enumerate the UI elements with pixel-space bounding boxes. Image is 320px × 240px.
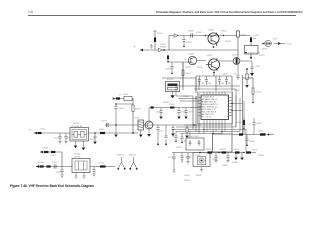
node junction after FL5551 (94, 132, 96, 134)
node bias dot (245, 52, 247, 54)
node IF2 arrow (36, 165, 39, 168)
wire bus corner upper (162, 77, 196, 79)
wire routing pocket (173, 130, 196, 142)
node dot (218, 152, 220, 154)
svg-text:C78: C78 (159, 131, 162, 133)
svg-text:R5564: R5564 (163, 102, 169, 104)
node dot (243, 152, 245, 154)
svg-text:R5586: R5586 (232, 162, 238, 164)
svg-text:C5604: C5604 (258, 155, 264, 157)
svg-text:R5582: R5582 (206, 149, 212, 151)
svg-text:R5571: R5571 (259, 55, 265, 57)
transistor Q5554 (233, 58, 240, 65)
inductor L5556 (100, 132, 105, 134)
header rule (28, 14, 296, 16)
svg-text:1 2 3 4 5 6: 1 2 3 4 5 6 (202, 116, 212, 118)
svg-text:D5551: D5551 (262, 49, 268, 51)
svg-text:C5553: C5553 (90, 139, 96, 141)
resistor R5557 vertical right (237, 30, 239, 62)
svg-text:SH5552: SH5552 (129, 155, 136, 157)
capacitor C5577 (184, 108, 187, 117)
wire outer routing ring (194, 89, 236, 127)
pin stubs U5551 top (204, 92, 225, 95)
svg-text:Schematic Diagrams, Overlays,: Schematic Diagrams, Overlays, and Parts … (156, 10, 303, 14)
svg-text:R5556: R5556 (38, 162, 44, 164)
resistor R5562 on rail (170, 107, 174, 109)
ceramic filter FL5552 (72, 159, 90, 173)
svg-text:C5551: C5551 (54, 138, 60, 140)
capacitor C5552 stub (64, 133, 67, 142)
mixer block U5552 (245, 46, 259, 55)
wire loop top (116, 103, 133, 105)
wire second stage line (178, 35, 250, 37)
wire second row (168, 61, 192, 63)
resistor R5551 vertical (154, 31, 156, 50)
ground FL5551 pin 3 (83, 141, 85, 147)
svg-text:Q5554: Q5554 (232, 55, 238, 57)
wire feeds from top cluster into bus (196, 78, 199, 93)
svg-text:C5554: C5554 (50, 155, 56, 157)
capacitor C5557 stub (92, 167, 95, 175)
ferrite E5554 (246, 151, 251, 153)
resistor R5574 (252, 88, 254, 94)
capacitor C5555 on line (54, 164, 56, 168)
svg-text:R5552: R5552 (221, 31, 227, 33)
svg-text:C5573: C5573 (101, 121, 107, 123)
IC U5551 internal text (202, 96, 218, 118)
capacitor C5581 (198, 76, 201, 85)
wire RX IF out line (232, 132, 274, 135)
svg-text:L5551: L5551 (40, 129, 45, 131)
resistor R5583 on line (222, 151, 227, 153)
svg-text:C5556: C5556 (56, 172, 62, 174)
pin stubs U5551 bottom (204, 120, 225, 134)
svg-text:R5572 C5571: R5572 C5571 (249, 53, 261, 55)
wire IF output line (186, 152, 244, 154)
svg-text:C5569: C5569 (222, 74, 228, 76)
svg-text:R5551: R5551 (157, 33, 163, 35)
node arrow out (274, 43, 278, 45)
svg-text:.01: .01 (184, 59, 187, 61)
capacitor C5582 (205, 76, 208, 85)
pin stubs U5551 right (229, 98, 233, 116)
capacitor C5597 stub (226, 153, 229, 161)
svg-text:CRYSTAL FIL: CRYSTAL FIL (71, 125, 83, 128)
wire IF input net to buffer (140, 49, 238, 51)
capacitor C5556 stub (60, 167, 63, 176)
svg-text:L5562: L5562 (258, 131, 263, 133)
svg-text:IF: IF (134, 47, 137, 49)
wire lower matching rail (105, 124, 201, 126)
svg-text:C5577: C5577 (188, 112, 194, 114)
svg-text:C84: C84 (228, 83, 231, 85)
svg-text:Y5551: Y5551 (286, 44, 291, 46)
wire upper IF rail (149, 107, 201, 109)
svg-text:Y5551: Y5551 (195, 155, 200, 157)
svg-text:RX IF: RX IF (253, 150, 259, 152)
varactor D5551 (265, 40, 271, 46)
buffer arrow A2 (174, 34, 178, 37)
inductor L5563 on line (235, 151, 240, 153)
svg-text:C5560: C5560 (196, 32, 202, 34)
svg-text:C5599: C5599 (168, 157, 174, 159)
inductor L5554 (124, 96, 132, 100)
inductor L5562 (260, 133, 266, 135)
ground stub below module x236 (235, 153, 237, 158)
wire 2nd LO line (40, 152, 62, 167)
svg-text:C81: C81 (201, 83, 204, 85)
svg-text:9.6V: 9.6V (273, 39, 278, 41)
svg-text:C5555: C5555 (52, 162, 58, 164)
capacitor C5564 below (182, 36, 185, 47)
capacitor C5599 tall stub (172, 153, 175, 171)
node IF_IN terminal arrow (140, 49, 143, 52)
svg-text:L5556: L5556 (99, 129, 104, 131)
svg-text:RX: RX (29, 130, 32, 132)
svg-text:C5587: C5587 (256, 123, 262, 125)
capacitor C5553 stub (93, 133, 96, 141)
transistor Q5551 (208, 33, 219, 44)
ground Y5551 (200, 167, 203, 173)
svg-text:C5593: C5593 (176, 147, 182, 149)
svg-text:Figure 7-46. VHF Receiver Back: Figure 7-46. VHF Receiver Back End Schem… (10, 184, 94, 188)
svg-text:L5560: L5560 (254, 35, 259, 37)
svg-text:R5574: R5574 (256, 92, 262, 94)
resistor R5561 vertical (132, 99, 134, 134)
ground stub x116 (115, 125, 117, 134)
capacitor C5592 (180, 134, 183, 143)
blank module box (213, 134, 233, 152)
capacitor C5573 series (106, 123, 108, 127)
ferrite E5551 (239, 133, 243, 135)
buffer arrow A1 (159, 48, 163, 52)
svg-text:C5561: C5561 (186, 42, 192, 44)
crystal filter FL5551 (70, 128, 89, 142)
svg-text:5V: 5V (119, 95, 122, 97)
inductor L5561 stub (243, 118, 245, 135)
capacitor C5563 on line (191, 33, 193, 37)
capacitor C5576 (177, 108, 180, 117)
svg-text:C5570: C5570 (255, 66, 261, 68)
wire left feed of IF line (172, 152, 186, 154)
svg-text:Q5552: Q5552 (207, 55, 213, 57)
wire bus verticals right of U5551 (232, 92, 244, 132)
ground stub below module x242 (241, 153, 243, 158)
capacitor C5588 stub (245, 135, 248, 146)
svg-text:FL5552: FL5552 (74, 154, 80, 156)
capacitor C5579 stub (165, 125, 167, 144)
inductor L5557 (51, 151, 55, 153)
svg-text:IF AMP: IF AMP (160, 46, 167, 49)
inductor L5559 (100, 165, 106, 167)
svg-text:R5557: R5557 (241, 35, 247, 37)
capacitor C5570 (250, 67, 253, 73)
capacitor C5565 (170, 62, 173, 73)
node dot rail (193, 124, 195, 126)
svg-text:L5563: L5563 (234, 149, 239, 151)
svg-text:Q5553: Q5553 (189, 54, 195, 56)
svg-text:C5567: C5567 (185, 73, 191, 75)
transistor Q5555 (145, 121, 153, 129)
capacitor C5580 stub (171, 125, 174, 133)
capacitor C5585 stub right (236, 62, 239, 80)
svg-text:C5563: C5563 (188, 31, 194, 33)
crystal X5551 (138, 120, 144, 130)
svg-text:R5558: R5558 (197, 67, 203, 69)
svg-text:R5555: R5555 (43, 148, 49, 150)
svg-text:R5584: R5584 (184, 180, 190, 182)
wire interstage riser (169, 36, 174, 51)
wire bus horizontals below IC (172, 125, 246, 134)
svg-text:C5601: C5601 (184, 175, 190, 177)
svg-text:R5585: R5585 (196, 175, 202, 177)
svg-text:C5588: C5588 (249, 141, 255, 143)
ground FL5552 pin A (74, 173, 77, 179)
inductor L5553 (116, 97, 120, 99)
pin stubs U5551 left (198, 98, 201, 116)
svg-text:C5589: C5589 (234, 90, 240, 92)
node dot on IF line (199, 152, 201, 154)
capacitor C5584 (225, 76, 228, 85)
capacitor C5600 stub (180, 153, 183, 161)
capacitor C5551 stub (58, 133, 61, 142)
wire FL5552 output (90, 166, 115, 168)
svg-text:R5561: R5561 (135, 109, 141, 111)
ground near R5551 (150, 44, 153, 48)
svg-text:C5590: C5590 (183, 96, 189, 98)
inductor L5552 stub (167, 55, 169, 62)
svg-text:R5554: R5554 (225, 41, 231, 43)
svg-text:R5583: R5583 (220, 149, 226, 151)
wire bus verticals left of U5551 (193, 93, 199, 134)
svg-text:C5594 C5595: C5594 C5595 (187, 136, 199, 138)
ground FL5551 pin 2 (75, 141, 77, 145)
wire RX input line (34, 132, 138, 134)
wire left bus corners into U5551 (176, 62, 240, 101)
svg-text:C82: C82 (208, 83, 211, 85)
resistor R5563 stub (186, 125, 188, 135)
svg-text:C5566: C5566 (165, 69, 171, 71)
svg-text:L5561: L5561 (237, 122, 242, 124)
capacitor C5583 (218, 76, 221, 85)
inductor L5551 (38, 132, 42, 134)
svg-text:SH5551: SH5551 (117, 155, 124, 157)
capacitor C5572 vertical (114, 104, 117, 125)
resistor R5575 vertical (246, 69, 248, 84)
svg-text:C83: C83 (221, 83, 224, 85)
inductor L5558 (47, 165, 51, 167)
capacitor row under bus: C5591 (174, 132, 177, 142)
svg-text:CER FIL: CER FIL (74, 157, 81, 159)
node 5V supply stub (113, 97, 133, 100)
resistor R5582 on line (208, 151, 213, 153)
shield E5553 (131, 157, 137, 168)
capacitor C5587 stub (252, 118, 255, 135)
svg-text:7-20: 7-20 (28, 10, 34, 14)
svg-text:R5562: R5562 (169, 104, 175, 106)
pin tick marks inside U5551 (201, 97, 202, 117)
svg-text:C85: C85 (233, 74, 236, 76)
capacitor C5578 stub (156, 125, 159, 144)
node LO arrow (40, 151, 43, 154)
shield E5552 (119, 157, 125, 168)
resistor R5553 vertical (182, 62, 184, 90)
crystal filter FL5553 (166, 82, 180, 92)
resistor R5556 (40, 165, 44, 167)
svg-text:C5602: C5602 (212, 159, 218, 161)
resistor block box (186, 138, 204, 150)
wire routing ring around U5551 (198, 92, 233, 124)
capacitor C5575 (159, 108, 162, 117)
svg-text:C5603: C5603 (222, 165, 228, 167)
resistor R5555 (44, 151, 48, 153)
IC U5551 body (201, 95, 229, 120)
svg-text:Y5552: Y5552 (134, 118, 139, 120)
wire IF filter line (36, 166, 72, 168)
svg-text:C5572: C5572 (119, 108, 125, 110)
ground FL5552 pin B (82, 173, 85, 179)
transistor Q5553 (188, 56, 196, 64)
capacitor C5596 stub (214, 153, 217, 161)
svg-text:C5575: C5575 (156, 112, 162, 114)
wire pin connectors to right vertical (232, 104, 243, 111)
svg-text:R5553: R5553 (185, 67, 191, 69)
svg-text:L5559: L5559 (99, 163, 104, 165)
svg-text:FL5551: FL5551 (73, 123, 79, 125)
svg-text:L5554: L5554 (123, 94, 128, 96)
svg-text:FL5553: FL5553 (167, 79, 173, 81)
transistor Q5552 (208, 59, 219, 70)
wire right vertical feed (243, 75, 254, 135)
svg-text:Q5551: Q5551 (209, 30, 215, 32)
wire shield rail top cluster (196, 74, 232, 92)
capacitor C5598 left stub (186, 153, 189, 162)
crystal Y5552 assembly (193, 153, 210, 167)
ground FL5553 (171, 92, 175, 99)
node RX_IN arrow (34, 132, 37, 135)
